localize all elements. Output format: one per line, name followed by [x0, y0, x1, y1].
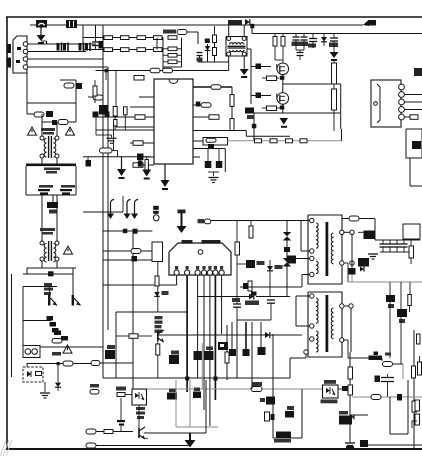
connector tag 1PIN: [198, 219, 211, 224]
transformer T01 pin5: [340, 230, 344, 234]
ground G o: [368, 240, 378, 259]
resistor R ictop: [134, 76, 144, 81]
resistor R r1: [211, 85, 221, 90]
transformer T01 pin2: [310, 249, 314, 253]
resistor R22: [121, 48, 130, 52]
connector tag P2: [86, 443, 190, 448]
junction rail: [250, 24, 254, 29]
wire subbox v: [22, 287, 24, 347]
transformer T01 coil p2: [316, 261, 318, 274]
connector CN02 inner: [377, 84, 380, 123]
wire gate rail: [247, 49, 251, 104]
wire xv227: [226, 325, 228, 380]
wire t1 cap link: [240, 286, 302, 288]
relay RL01 body: [23, 346, 40, 358]
capacitor CE2: [60, 189, 72, 195]
resistor R l6: [133, 141, 143, 146]
transformer T01 shield box: [308, 215, 342, 284]
wire stub left1: [7, 44, 11, 53]
label B+: [414, 68, 422, 76]
photocoupler U51 box: [323, 385, 339, 398]
arrow gnd A20b: [142, 170, 151, 180]
resistor R g2: [262, 106, 280, 111]
wire u01 pin L1: [139, 96, 154, 98]
diode cluster D o1: [358, 258, 369, 272]
wire u01 pin R7: [193, 156, 200, 158]
choke LF02 coil left: [44, 244, 46, 262]
wire u01 pin L6: [130, 142, 154, 144]
resistor R fb: [235, 242, 240, 268]
resistor R31: [230, 95, 234, 107]
junction J s1: [350, 230, 354, 234]
wire y445: [362, 444, 422, 446]
connector CN02 p2: [399, 92, 405, 98]
resistor R x419: [418, 356, 422, 375]
capacitor C row: [92, 38, 99, 50]
junction J s3: [344, 304, 353, 352]
capacitor C22: [86, 157, 92, 167]
wire grey v202: [201, 343, 203, 389]
wire c20 gnd: [96, 117, 112, 137]
resistor R p1: [104, 430, 113, 434]
photocoupler U51 inner: [326, 387, 335, 395]
resistor R cn: [410, 115, 418, 120]
resistor R22b: [100, 148, 118, 157]
arrow gnd big: [185, 433, 196, 448]
resistor R sn3: [273, 34, 283, 61]
wire x408b: [407, 380, 409, 434]
choke LF02 pin tr: [55, 241, 59, 245]
mosfet Q02: [271, 93, 289, 105]
capacitor C o3: [394, 240, 401, 252]
wire grey y427: [176, 426, 218, 428]
arrow gnd T03: [240, 69, 249, 78]
schematic border top: [6, 16, 422, 18]
harness arrow H2: [124, 200, 131, 220]
diode cluster D bt: [274, 432, 291, 443]
wire f bottom: [237, 319, 271, 321]
resistor R o1: [409, 239, 414, 264]
wire q20 e: [157, 341, 159, 344]
wire B+ rail: [252, 33, 422, 35]
wire choke2 feed r: [56, 195, 58, 241]
wire q21 e: [144, 433, 206, 439]
rectifier cluster BD: [47, 202, 58, 214]
resistor R hv2: [332, 84, 337, 131]
transformer T02 coil s: [331, 308, 333, 339]
capacitor C b2: [329, 34, 338, 52]
wire u02 p3: [197, 275, 199, 378]
arrow to line: [37, 35, 46, 44]
transformer T03 coil top: [230, 43, 244, 45]
wire grey y397: [352, 396, 422, 398]
warning triangle W3: [64, 246, 73, 254]
wire pc02 left: [100, 395, 117, 397]
connector CN1 body: [13, 36, 27, 73]
capacitor C r22: [103, 256, 152, 262]
choke LF02 pin br: [55, 257, 59, 261]
wire x273: [272, 334, 274, 438]
diode D100: [245, 19, 250, 25]
wire pc gnd: [44, 382, 46, 392]
wire xv238: [236, 320, 238, 378]
transformer T01 pin1: [310, 218, 314, 222]
resistor R23: [137, 48, 146, 52]
transformer T02 pin4: [304, 350, 308, 354]
wire cn02 w5: [404, 116, 410, 118]
wire varistor: [27, 73, 34, 114]
capacitor C23: [138, 157, 143, 167]
connector tag TON: [342, 216, 375, 240]
connector CN1 pin3: [23, 57, 28, 62]
wire aux2: [73, 363, 91, 365]
resistor R hv1: [332, 60, 337, 84]
transformer T02 pin2: [310, 324, 314, 328]
wire u02 p6: [214, 275, 216, 400]
arrow gnd B: [330, 52, 339, 61]
wire t2 pin feeds: [296, 296, 310, 352]
bead sq FB4: [0, 0, 1, 1]
capacitor CE1: [38, 189, 50, 195]
capacitor C t03: [205, 39, 210, 44]
resistor R24: [154, 48, 163, 52]
resistor R vstart: [177, 30, 198, 45]
wire reg bot: [116, 312, 187, 378]
capacitor C20: [93, 112, 110, 118]
relay RL01 c2: [32, 349, 38, 355]
capacitor CX1 cluster: [63, 20, 80, 28]
bead FB1: [283, 232, 291, 247]
resistor R l9: [133, 163, 143, 168]
wire bus caps r: [75, 166, 77, 195]
bead L bt: [369, 352, 392, 361]
resistor R bleed: [93, 80, 97, 103]
resistor R14: [154, 36, 163, 40]
wire vo2: [400, 282, 402, 364]
component D bl1: [105, 345, 115, 359]
resistor R21b: [124, 107, 128, 130]
label LF02: [40, 228, 55, 235]
resistor R a1: [150, 68, 160, 73]
wire fr1 rail: [23, 268, 73, 274]
capacitor C fa: [232, 268, 241, 320]
bead FB3: [349, 268, 356, 275]
wire t1 pin4 feed: [302, 275, 310, 288]
transformer T02 pin3: [310, 337, 314, 341]
junction dots bt: [185, 377, 217, 381]
ladder bottom: [163, 66, 182, 68]
harness arrow H3: [131, 200, 138, 220]
wire x206: [205, 380, 207, 433]
ic U02 hole: [198, 250, 203, 255]
wire vo1: [389, 282, 391, 358]
connector CN1 pin4: [23, 65, 28, 70]
wire relay left: [12, 351, 24, 353]
transformer T02 coil p1: [316, 298, 318, 323]
ground G pc: [40, 393, 50, 398]
wire under ic: [83, 196, 123, 212]
wire xv246: [245, 322, 247, 352]
choke LF01 coil right: [54, 139, 56, 157]
triac Q10: [48, 287, 57, 306]
wire cn02 w2: [404, 94, 422, 96]
wire grey v190: [189, 380, 191, 427]
connector CN02 p5: [399, 114, 405, 120]
wire grey sec: [348, 281, 422, 283]
wire y415: [350, 414, 368, 416]
photocoupler PC02 box: [132, 389, 147, 405]
ladder rail L: [162, 38, 164, 71]
wire row1: [83, 37, 163, 39]
ladder rung1: [163, 47, 182, 51]
junction y397: [397, 394, 402, 401]
resistor R s2: [270, 139, 277, 143]
resistor R x350a: [348, 367, 353, 379]
wire x218 b: [217, 400, 219, 427]
component D bm1: [167, 389, 177, 400]
warning triangle W2: [66, 127, 75, 135]
wire y438: [273, 437, 302, 439]
wire u01 pin L7: [83, 156, 151, 158]
wire sec1 down: [351, 235, 353, 273]
wire u02 p7: [221, 275, 223, 334]
varistor ZNR1: [34, 111, 53, 117]
wire xv261: [260, 322, 262, 350]
transformer T01 coil s: [331, 233, 333, 264]
capacitor C o1: [380, 240, 387, 252]
resistor R r3: [209, 115, 219, 120]
diode cluster D10: [47, 316, 59, 333]
wire g2: [251, 95, 271, 97]
label MB504: [182, 240, 193, 244]
label C450a: [39, 185, 53, 188]
ic U02 pins: [174, 270, 224, 275]
transformer T02 shield box: [308, 292, 342, 357]
resistor R x414a: [412, 366, 416, 378]
connector CN02 hole: [374, 102, 378, 106]
wire x414: [414, 330, 420, 449]
resistor R q2s: [245, 108, 254, 120]
connector CN02 p1: [399, 84, 405, 90]
photocoupler PC10 led: [27, 371, 31, 377]
wire line E: [28, 58, 103, 60]
wire aux drop1: [105, 71, 107, 81]
wire u01 pin L3: [96, 116, 154, 118]
arrow gnd q2: [280, 118, 289, 128]
wire mid drop: [132, 231, 134, 389]
bead FB1b: [283, 258, 291, 297]
resistor R r23: [155, 276, 159, 286]
wire p1: [113, 431, 133, 433]
connector CN1 marks: [16, 47, 21, 63]
resistor R aux2: [91, 361, 100, 366]
wire u02 p2: [186, 275, 188, 392]
fusible link FR1: [48, 271, 54, 276]
transistor Q20: [158, 330, 164, 342]
diode cluster D o0: [358, 231, 376, 240]
relay RL01 c1: [25, 349, 31, 355]
wire vo grey: [402, 364, 404, 379]
harness arrow H1: [107, 200, 114, 220]
wire choke1 top r: [56, 122, 58, 136]
transistor Q21: [121, 427, 145, 439]
wire sec down grey: [351, 275, 353, 283]
resistor R t03: [213, 26, 217, 48]
wire box top: [60, 79, 76, 81]
diode D t03: [205, 44, 211, 62]
capacitor C bt3: [375, 374, 395, 397]
wire r20 link: [113, 124, 115, 151]
wire stub left2: [7, 58, 11, 68]
wire relay right: [40, 346, 103, 348]
wire line pin4: [28, 66, 108, 68]
resistor R br1: [415, 400, 420, 411]
capacitor C sn2: [296, 34, 308, 51]
wire u01 pin R4: [193, 131, 290, 137]
connector tag V1: [153, 206, 159, 221]
wire line N: [28, 51, 86, 53]
choke LF01 pin br: [55, 154, 59, 158]
transistor cluster QF: [243, 281, 257, 296]
wire row2: [83, 49, 163, 51]
label U51a: [324, 380, 336, 384]
diode D aux: [55, 364, 61, 392]
choke LF02 core: [49, 241, 52, 261]
transformer T02 core: [326, 295, 329, 352]
label C450b: [61, 185, 75, 188]
wire rail y389 grey: [133, 388, 335, 390]
wire tag feed: [211, 220, 310, 222]
ladder rung2: [163, 54, 182, 58]
junction J s2: [344, 261, 354, 265]
resistor R20: [113, 107, 117, 131]
label V-START: [163, 30, 176, 34]
resistor R aux: [63, 361, 73, 366]
transformer T03 coil bot: [230, 50, 244, 52]
noise: [0, 440, 12, 456]
component D bl4: [205, 347, 214, 361]
wire sec2: [344, 263, 348, 282]
label trig: [44, 283, 53, 295]
wire y434: [390, 433, 408, 435]
transformer T02 pin1: [310, 294, 314, 298]
wire chain x231: [231, 87, 233, 131]
resistor R bt: [382, 358, 403, 367]
node V5 flag: [363, 20, 376, 27]
capacitor CX3: [79, 43, 91, 52]
connector CN02 p4: [399, 107, 405, 113]
wire q1 q2: [282, 75, 284, 93]
wire aux rail: [96, 70, 229, 72]
transformer T03 core: [228, 46, 246, 48]
connector CN1 pin2: [23, 49, 28, 54]
wire box feed: [375, 239, 420, 241]
capacitor C o4: [401, 240, 408, 252]
wire bus caps l: [25, 166, 27, 195]
arrow gnd A21: [161, 164, 170, 190]
wire fd: [198, 296, 290, 298]
wire box v2: [75, 80, 77, 103]
component bt mark: [360, 440, 368, 447]
wire u51 r: [338, 373, 350, 389]
wire subbox left: [11, 274, 13, 377]
resistor R32: [230, 119, 234, 131]
capacitor C r6b: [208, 149, 222, 173]
resistor R trig: [52, 339, 62, 344]
wire sec1: [344, 231, 352, 233]
capacitor C g1: [256, 64, 262, 70]
capacitor cluster CO5: [386, 295, 395, 308]
wire t02 sec out: [343, 340, 382, 358]
transformer T01 pin6: [340, 261, 344, 265]
choke LF01 pin bl: [40, 154, 44, 158]
connector tag P1: [86, 429, 104, 434]
wire u01 pin R5: [193, 140, 203, 142]
ic U01 body: [154, 79, 193, 164]
resistor R q20e: [156, 344, 160, 378]
resistor R s1: [255, 139, 262, 143]
wire u02 p4: [203, 275, 205, 410]
wire caps bot: [380, 251, 410, 253]
capacitor C bead: [284, 247, 290, 258]
capacitor C v246: [243, 349, 250, 356]
ladder rail R: [181, 38, 183, 68]
resistor R r21: [103, 249, 152, 254]
wire fuse drop: [40, 27, 42, 35]
diode D b1: [321, 34, 327, 47]
ladder rung0: [163, 36, 182, 40]
resistor R12: [121, 36, 130, 40]
transformer T03 box: [226, 37, 247, 57]
box aux right: [403, 224, 420, 239]
label LF01: [41, 128, 55, 135]
capacitor C21: [99, 105, 108, 115]
wire choke2 bot: [27, 261, 76, 268]
wire hv string: [228, 129, 342, 141]
zener VR fc: [267, 260, 283, 297]
label STR-W6756: [202, 240, 221, 244]
resistor R r24: [116, 334, 152, 339]
wire caps rail: [26, 194, 76, 196]
transformer T01 core: [326, 222, 329, 276]
wire trig bot: [23, 320, 51, 322]
component C bt: [285, 406, 294, 418]
resistor R s4: [300, 139, 307, 143]
resistor R br2: [412, 414, 420, 428]
junction aux rail: [105, 69, 109, 73]
wire u01 pin L4: [116, 126, 154, 128]
resistor R v227: [225, 352, 229, 363]
capacitor C10 cluster: [54, 331, 68, 341]
capacitor C row2: [99, 41, 104, 49]
wire row drop: [82, 25, 84, 50]
resistor R g1: [262, 76, 279, 81]
transformer T02 pin6: [340, 338, 344, 342]
wire caps center: [52, 195, 54, 202]
wire q1 drain: [282, 46, 284, 63]
wire choke2 feed l: [41, 195, 43, 241]
transformer T01 pin4: [310, 272, 314, 276]
wire choke1 top l: [27, 114, 44, 136]
capacitor C sn: [283, 50, 304, 60]
triac Q11: [72, 268, 81, 306]
bead FB2: [288, 256, 310, 264]
wire u01 pin L8: [144, 156, 154, 158]
fuse F2 tag: [251, 382, 262, 392]
transformer T03 pins bot: [227, 52, 247, 56]
capacitor C l8: [137, 154, 144, 161]
choke LF02 pin tl: [40, 241, 44, 245]
